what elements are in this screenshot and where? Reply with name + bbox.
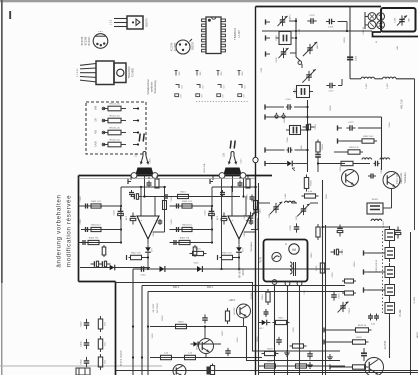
svg-text:R413: R413: [180, 191, 186, 193]
op-amp amplifier V401R: [228, 216, 250, 239]
transistor V523: [365, 340, 388, 375]
capacitor C405L el: [114, 208, 124, 220]
antenna link wires: [365, 12, 368, 29]
resistor R403R: [180, 224, 195, 231]
svg-text:81 P: 81 P: [217, 215, 219, 220]
svg-text:R529: R529: [267, 349, 273, 351]
wire opamp inputs chL: [141, 187, 155, 216]
svg-text:C162: C162: [356, 55, 358, 61]
label cluster bottom3: [257, 327, 295, 342]
resistor R443 (vert): [98, 354, 106, 370]
svg-text:Mittelwelle: Mittelwelle: [400, 172, 403, 183]
svg-text:C103: C103: [276, 35, 278, 41]
resistor R445 (vert): [225, 308, 229, 324]
tuner frame top rail: [256, 6, 382, 8]
wire opamp out chR: [238, 239, 240, 270]
svg-text:C455: C455: [293, 327, 295, 333]
capacitor C401R: [171, 196, 180, 209]
resistor R306 5,6k: [302, 191, 319, 198]
switch contact block S504: [385, 281, 395, 299]
resistor R449 1,5k: [158, 352, 175, 359]
resistor R302 134: [342, 136, 377, 143]
capacitor C439: [81, 339, 90, 349]
resistor R406L (vert): [102, 245, 106, 257]
capacitor C523: [276, 337, 282, 345]
wid labels: [173, 287, 214, 289]
pot stub right: [210, 176, 213, 185]
capacitor C107: [307, 15, 316, 24]
ersatz text: [250, 290, 253, 299]
capacitor C117: [326, 79, 342, 93]
svg-text:R164: R164: [322, 144, 324, 150]
antenna terminal 3: [266, 51, 271, 56]
capacitor C411R: [249, 219, 254, 225]
svg-text:R519: R519: [262, 294, 264, 300]
label cluster af2: [332, 261, 356, 278]
svg-text:30V: 30V: [242, 71, 244, 75]
antenna coil winding c: [368, 21, 376, 29]
wire out net R: [251, 218, 258, 230]
label cluster tuner1: [261, 28, 301, 72]
tonband text: [250, 241, 253, 252]
svg-text:V517: V517: [258, 328, 264, 330]
resistor R447: [173, 321, 190, 328]
switch feed T3: [364, 287, 386, 292]
svg-text:R161: R161: [284, 117, 286, 123]
inductor L303: [285, 201, 296, 203]
svg-text:PL AM: PL AM: [399, 310, 402, 317]
svg-text:C109: C109: [328, 27, 334, 29]
legend measurement symbols: [175, 71, 249, 102]
switch feed T2: [364, 269, 386, 274]
svg-text:C453: C453: [237, 337, 239, 343]
terminal T04: [265, 161, 286, 166]
svg-text:HFL 5 W: HFL 5 W: [402, 99, 404, 109]
audio board frame left edge: [79, 176, 116, 375]
capacitor C528 el: [361, 348, 367, 361]
wire feedback chL: [153, 187, 165, 232]
motor coil: [290, 262, 296, 276]
label R425: [204, 163, 206, 173]
bus corner right: [240, 283, 340, 352]
resistor R405L: [86, 237, 101, 244]
nf text col: [153, 303, 159, 313]
trimmer box C103: [276, 32, 295, 45]
capacitor C160: [286, 99, 308, 110]
antenna coil winding d: [377, 21, 385, 29]
capacitor C404L: [82, 240, 86, 245]
variable capacitor C105: [276, 48, 289, 63]
svg-text:C415: C415: [260, 208, 262, 214]
svg-text:R403 114: R403 114: [182, 224, 192, 226]
resistor R411L fb: [163, 201, 167, 210]
svg-text:C166: C166: [301, 145, 303, 151]
svg-text:+30 C: +30 C: [229, 299, 236, 302]
svg-text:R405 774: R405 774: [180, 237, 190, 239]
antrieb text: [120, 349, 123, 365]
resistor R164 (vert): [316, 140, 324, 155]
range resistor R704 (UKW): [95, 140, 140, 147]
capacitor C430: [247, 194, 255, 202]
svg-text:R401 124: R401 124: [182, 201, 192, 203]
svg-text:R403 114: R403 114: [91, 224, 101, 226]
svg-text:mV: mV: [181, 94, 183, 98]
svg-text:AM 1: AM 1: [316, 43, 319, 49]
wire v519: [202, 343, 221, 345]
wire input row1 chL: [79, 205, 104, 207]
board bottom long rail: [116, 325, 418, 370]
wire top rail chL: [121, 186, 166, 188]
capacitor C540 el: [395, 227, 401, 239]
record player module frame: [264, 240, 308, 282]
svg-text:C403: C403: [80, 219, 82, 225]
svg-text:14-DIP: 14-DIP: [238, 30, 241, 38]
svg-text:C107: C107: [309, 15, 315, 17]
svg-text:30V: 30V: [221, 71, 223, 75]
potentiometer P401 volume: [131, 152, 158, 179]
wire module top rail: [321, 226, 389, 230]
transistor package Q-TO39 AC187K: [171, 39, 195, 54]
svg-text:mV: mV: [244, 94, 246, 98]
svg-text:R417 270: R417 270: [222, 253, 232, 255]
resistor R529: [262, 349, 279, 356]
resistor R527: [330, 365, 369, 370]
capacitor C521: [331, 291, 340, 300]
svg-text:C160: C160: [286, 99, 292, 101]
capacitor C423: [138, 266, 146, 276]
svg-text:mV: mV: [223, 94, 225, 98]
svg-text:V407: V407: [193, 263, 199, 265]
capacitor C176: [368, 174, 376, 179]
range resistor R702 (LW): [95, 116, 140, 123]
inductor L304: [371, 219, 385, 226]
svg-text:C432: C432: [244, 214, 246, 220]
wire coil feed: [350, 75, 361, 79]
svg-text:C520: C520: [342, 249, 344, 255]
svg-text:TA/TB: TA/TB: [260, 256, 263, 263]
op-amp amplifier V401L: [137, 216, 159, 239]
resistor R521 (vert): [316, 260, 325, 276]
diode V403R zener: [236, 244, 244, 256]
svg-text:C439: C439: [81, 341, 83, 347]
switch contact block S503: [385, 263, 395, 281]
text +30C: [229, 299, 236, 302]
capacitor C445: [202, 314, 208, 323]
svg-text:Telefunken: Telefunken: [405, 172, 407, 184]
audio lower rail: [80, 268, 330, 270]
speaker connector box: [76, 368, 90, 375]
svg-text:L001: L001: [395, 17, 397, 23]
frame junction circle: [253, 157, 258, 162]
wire fb top chL: [149, 176, 157, 180]
diode V407: [157, 266, 169, 272]
svg-text:R701 1,25: R701 1,25: [109, 104, 120, 106]
capacitor C174: [373, 161, 379, 167]
svg-text:BC238: BC238: [234, 307, 236, 314]
svg-text:BC 238 B: BC 238 B: [157, 303, 159, 313]
svg-text:R401 124: R401 124: [91, 201, 101, 203]
svg-text:P301 1007: P301 1007: [397, 172, 399, 184]
capacitor C421 electrolytic: [99, 261, 111, 267]
capacitor C447: [225, 348, 231, 356]
svg-text:C401: C401: [80, 196, 82, 202]
wire af out vert: [389, 316, 391, 358]
module terminal 3: [297, 281, 302, 286]
ground G502: [307, 362, 313, 368]
ground G501: [284, 350, 290, 356]
capacitor C409L: [129, 190, 134, 197]
switch contact b: [282, 113, 308, 118]
wire feedback chR: [244, 187, 256, 232]
hf text right: [402, 99, 404, 109]
antenna terminal 1: [266, 19, 271, 24]
wire mid rows: [150, 327, 262, 358]
wire coil out: [396, 79, 414, 230]
resistor R533: [293, 364, 310, 368]
svg-text:BC239C: BC239C: [89, 36, 91, 45]
filter box F301: [367, 199, 383, 214]
svg-text:C105: C105: [276, 57, 278, 63]
svg-text:AM 1: AM 1: [289, 14, 292, 20]
label cluster tuner2: [344, 26, 365, 42]
switch chain label: [376, 259, 402, 316]
svg-text:änderung vorbehalten: änderung vorbehalten: [56, 194, 63, 267]
wire opamp out chL: [147, 239, 149, 270]
capacitor C164 el: [303, 124, 318, 130]
switch contact block S501: [385, 226, 395, 244]
switch contact a: [275, 113, 278, 118]
diode V403L zener: [145, 244, 153, 256]
variable capacitor C182 osc: [296, 204, 310, 220]
capacitor C519: [264, 309, 269, 317]
if mid rail: [317, 162, 345, 164]
terminal T02: [265, 114, 275, 119]
label cluster bottom2: [222, 330, 239, 343]
svg-text:+: +: [232, 218, 234, 222]
svg-text:L304: L304: [383, 221, 385, 227]
diode V517: [258, 320, 270, 330]
pickup crystal: [272, 252, 281, 261]
svg-text:MW: MW: [95, 105, 98, 110]
tuner frame left edge inner: [258, 183, 260, 375]
terminal T11: [338, 125, 343, 130]
label C427: [241, 158, 243, 164]
diode V409: [193, 263, 206, 273]
svg-text:L163: L163: [387, 83, 389, 89]
capacitor C441: [81, 357, 90, 367]
capacitor C413L top: [147, 181, 152, 188]
wire top rail chR: [212, 186, 257, 188]
svg-text:R302 134: R302 134: [363, 136, 373, 138]
module label: [260, 256, 263, 263]
capacitor C305: [290, 223, 299, 232]
svg-text:TONBAND: TONBAND: [250, 241, 253, 252]
label cluster bottom1: [152, 315, 164, 339]
capacitor C532: [307, 350, 313, 359]
transistor V302 AF126: [381, 168, 400, 189]
tuner frame left edge: [255, 7, 257, 375]
resistor R519 (vert): [262, 289, 270, 305]
svg-text:R521: R521: [316, 265, 318, 271]
if rail right vert: [381, 117, 383, 170]
audio board frame top rail: [79, 175, 273, 177]
capacitor C411L: [158, 219, 163, 225]
tuner top bus: [262, 30, 372, 32]
wire pot2 drops: [220, 176, 244, 271]
svg-text:C524: C524: [349, 308, 351, 314]
svg-text:R459: R459: [257, 336, 259, 342]
svg-text:S 5021: S 5021: [414, 296, 416, 304]
resistor R409L top: [155, 179, 159, 188]
svg-text:0005 000 00: 0005 000 00: [376, 259, 378, 272]
svg-text:C164: C164: [315, 124, 317, 130]
svg-text:R405 774: R405 774: [89, 237, 99, 239]
capacitor C401L: [80, 196, 89, 209]
svg-text:C113 30: C113 30: [363, 26, 365, 35]
svg-text:V301: V301: [340, 166, 342, 172]
transistor V415: [173, 365, 186, 375]
svg-text:ERSATZ: ERSATZ: [250, 290, 253, 299]
svg-text:C415: C415: [140, 275, 146, 277]
osc text: [397, 172, 407, 184]
svg-text:R301: R301: [330, 105, 332, 111]
svg-text:R702 1,25: R702 1,25: [109, 116, 120, 118]
resistor R420: [190, 248, 207, 255]
resistor R401R: [180, 201, 195, 208]
svg-text:R425 10k: R425 10k: [204, 163, 206, 173]
svg-text:SF301: SF301: [372, 199, 379, 201]
svg-text:C403: C403: [114, 210, 116, 216]
dashed alignment box: [86, 102, 146, 154]
resistor R304: [338, 161, 370, 165]
wire coil link: [375, 78, 383, 80]
antenna coil winding b: [377, 13, 385, 21]
legend title text: [147, 79, 157, 95]
diode V161: [284, 161, 307, 171]
wire pot1 wiper drop: [143, 176, 145, 198]
svg-text:R417 270: R417 270: [131, 253, 141, 255]
tuner frame notch: [373, 32, 418, 37]
svg-text:AC188K: AC188K: [174, 42, 177, 51]
variable capacitor C101 AM: [277, 14, 291, 26]
inductor L163: [383, 77, 397, 88]
transistor V413: [197, 339, 214, 354]
registration tick mark: [9, 11, 11, 19]
resistor R525: [324, 337, 369, 345]
resistor R406R (vert): [193, 245, 197, 257]
audio mid rail: [143, 196, 240, 198]
capacitor C409R: [220, 190, 225, 197]
inductor L162: [361, 77, 375, 88]
svg-text:WID 2: WID 2: [173, 287, 180, 289]
svg-text:30V: 30V: [179, 71, 181, 75]
svg-text:C166: C166: [287, 137, 289, 143]
svg-text:R704 1,25: R704 1,25: [109, 140, 120, 142]
capacitor C413 mid: [162, 194, 170, 199]
antenna coil winding a: [368, 13, 376, 21]
svg-text:C304: C304: [389, 122, 391, 128]
capacitor C415 out: [253, 206, 261, 216]
label cluster osc: [285, 193, 328, 199]
svg-text:BC238B: BC238B: [85, 36, 87, 45]
resistor R403L: [89, 224, 104, 231]
capacitor C172: [346, 122, 381, 131]
af bus pair: [323, 180, 326, 375]
wire input row2 chL: [81, 229, 103, 231]
wire gang link: [296, 57, 302, 68]
svg-text:2N3055: 2N3055: [193, 41, 195, 50]
diode V405: [107, 265, 119, 271]
capacitor C403R: [171, 219, 180, 232]
svg-text:C305: C305: [290, 225, 292, 231]
ground G503: [327, 354, 333, 360]
switch chain dotted line: [382, 231, 384, 313]
capacitor C419 electrolytic: [91, 261, 103, 267]
capacitor C162: [347, 55, 358, 61]
svg-text:WID 1: WID 1: [207, 287, 214, 289]
wire input row1 chR: [170, 205, 195, 207]
resistor R520: [290, 344, 307, 348]
svg-text:AM: AM: [396, 46, 399, 49]
range resistor R703 (KW): [95, 128, 140, 135]
resistor R417R: [218, 253, 241, 261]
if bus vertical: [306, 100, 308, 172]
svg-text:2002C: 2002C: [243, 268, 245, 275]
resistor R523 4k: [324, 325, 372, 333]
resistor R453 (bottom): [207, 364, 215, 375]
wire c109 right: [338, 22, 348, 32]
capacitor C407R el: [217, 213, 227, 225]
svg-text:R523 4k: R523 4k: [358, 325, 367, 327]
supply rail C: [148, 292, 345, 375]
wire junction col chR: [194, 187, 214, 244]
variable capacitor C432: [244, 212, 255, 222]
wire hf rail: [349, 7, 351, 76]
svg-text:mV: mV: [202, 94, 204, 98]
potentiometer P402 balance: [219, 152, 246, 179]
svg-text:C427: C427: [241, 158, 243, 164]
variable capacitor C524: [338, 302, 351, 314]
transistor V411: [234, 304, 251, 318]
wire if out: [383, 189, 392, 209]
supply rail B: [142, 286, 345, 375]
section mark II (right): [230, 141, 235, 149]
svg-text:C430: C430: [247, 194, 249, 200]
svg-text:symboles: symboles: [151, 81, 154, 92]
range resistor R701 (MW): [95, 104, 140, 111]
modification notice text: [56, 194, 73, 267]
svg-text:NF-VERST.: NF-VERST.: [240, 266, 242, 278]
resistor R451 1,1k: [182, 352, 199, 359]
svg-text:30V: 30V: [200, 71, 202, 75]
svg-text:TDA2003: TDA2003: [127, 66, 131, 78]
capacitor C404R: [173, 240, 177, 245]
resistor R101 (vert): [304, 175, 312, 192]
svg-text:V302: V302: [381, 168, 383, 174]
label C425: [150, 158, 152, 164]
switch feed T1: [364, 250, 386, 255]
resistor R401L: [89, 201, 104, 208]
svg-text:C441: C441: [81, 359, 83, 365]
right border line: [410, 232, 412, 375]
module terminal 1: [272, 280, 277, 285]
svg-text:R525: R525: [356, 337, 362, 339]
svg-text:BC237B: BC237B: [82, 36, 84, 45]
svg-text:C451: C451: [152, 333, 154, 339]
board bottom rail: [116, 282, 241, 284]
wire input row3 chR: [170, 242, 194, 244]
inductor L301: [362, 158, 372, 160]
